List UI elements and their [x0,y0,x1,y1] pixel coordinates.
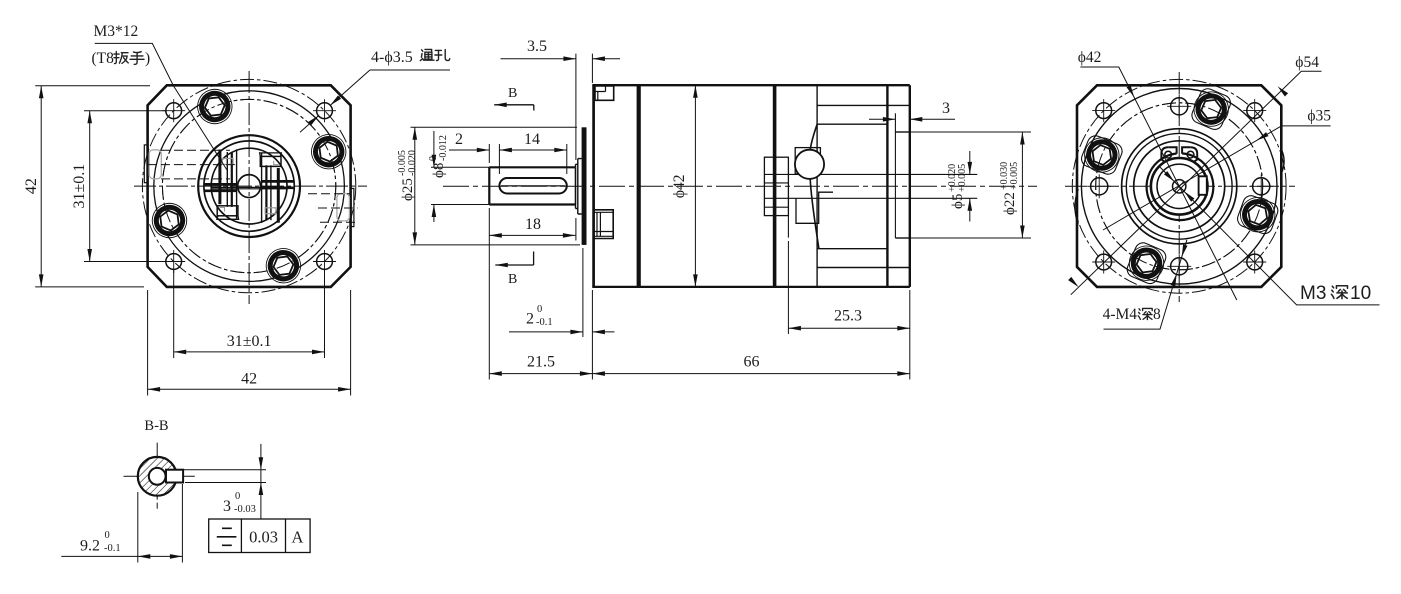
shaft step A [576,164,578,208]
bolt circle dashes over screws [1096,103,1263,270]
body bottom edge [592,286,910,288]
svg-text:2: 2 [526,311,534,328]
dim phi42: dimension line [694,85,696,287]
left hidden lines [161,149,230,151]
pilot boss circles [198,135,300,237]
dim 21.5 extension line [488,208,490,380]
center shaft hole [238,175,261,198]
label M3*12 leader [95,43,227,170]
M4 hole top [1167,94,1191,118]
svg-text:ϕ25: ϕ25 [400,178,416,201]
corner hole bottom-left [1092,251,1115,274]
dim 3.5: dimension line [501,58,576,60]
M3 tapped center hole [1173,180,1186,193]
right edge slot tab [351,189,354,227]
flange square outline [1077,85,1281,287]
leader line phi42 [1080,67,1236,300]
keyway bottom edge line [501,185,565,187]
svg-text:25.3: 25.3 [834,308,862,325]
horizontal centerline [134,185,367,187]
right edge slot phantom [337,194,350,221]
right hidden lines [308,193,350,195]
screw pocket top [1189,86,1233,132]
motor shell line [816,85,818,287]
corner hole top-left [1092,99,1115,122]
dim 3 key: leader line to frame [260,444,262,519]
flange screw top detail [595,86,614,100]
dim 2-0.1: extension lines [582,248,584,337]
bore circle [211,148,287,224]
motor end-bell joint [886,85,888,287]
dim 3 rear: dimension line [869,118,895,120]
block edge extension [787,216,789,238]
svg-text:ϕ22: ϕ22 [1002,192,1018,215]
hex socket screw bottom [261,243,306,288]
dim 21.5: dimension line [489,373,592,375]
M4 hole right [1249,174,1273,198]
svg-text:0.03: 0.03 [249,528,278,547]
dim 31 bottom: extension lines [173,270,175,358]
corner-hole circle [1072,79,1286,293]
svg-text:2: 2 [455,131,463,148]
shaft end face [488,167,490,204]
center hole [149,468,166,485]
key [166,470,183,483]
shaft circle [1157,164,1201,208]
M4 hole left [1087,174,1111,198]
hex socket screw left [147,198,192,243]
corner hole top-right [1243,99,1266,122]
svg-text:4-ϕ3.5: 4-ϕ3.5 [371,49,413,66]
carrier mechanism rotated half [260,153,294,223]
hex socket screw left [1079,133,1124,178]
corner-hole circle [142,79,355,292]
stepped bracket below [796,192,833,223]
body top edge [592,84,910,86]
dim 66: dimension line [592,373,909,375]
screw pocket bottom [1125,240,1169,286]
svg-text:10: 10 [1350,283,1371,304]
dim 2-0.1: dimension line [509,331,583,333]
dim 25.3: extension line [787,241,789,334]
carrier mechanism upper-left half [205,149,239,219]
motor lead wire curve [810,124,819,249]
svg-text:B-B: B-B [144,418,168,434]
dim 18: dimension line [489,234,575,236]
svg-text:66: 66 [744,354,760,371]
hex socket screw right [1236,193,1280,237]
dim 25.3: dimension line [788,327,909,329]
capacitor bracket [795,148,820,174]
main body circle [154,91,345,282]
svg-text:18: 18 [525,216,541,233]
dim 42 bottom: dimension line [148,388,351,390]
motor front joint line [773,85,777,287]
vertical centerline [1178,72,1180,302]
svg-text:A: A [292,528,304,547]
screw pocket left [1079,133,1124,176]
gearbox boss circles [1122,129,1237,244]
svg-text:8: 8 [1153,306,1161,323]
leader line phi54 diagonal [1071,71,1322,294]
hex socket screw bottom [1124,241,1169,286]
section centerlines [124,475,195,477]
svg-text:-0.03: -0.03 [234,504,256,515]
ring gear joint line [637,85,641,287]
dim phi5: text [947,164,968,209]
dim 3 key: extension lines [171,469,266,471]
svg-text:0: 0 [235,491,240,502]
output shaft outline [489,167,575,204]
feature control frame [209,519,310,553]
bolt circle PCD35 [162,99,335,272]
corner hole bottom-left [162,250,185,273]
svg-text:31±0.1: 31±0.1 [227,333,272,350]
dim 2 keyway: extension lines [488,144,490,163]
dim 42 left: extension lines [35,85,150,87]
pilot flange disc [582,127,587,245]
main centerline [443,185,1037,187]
svg-text:9.2: 9.2 [80,538,100,555]
dim phi25: dimension line [414,127,416,245]
svg-text:ϕ5: ϕ5 [950,194,966,209]
dim phi22: dimension line [1021,132,1023,238]
svg-text:ϕ8: ϕ8 [431,163,447,178]
motor rear face [909,85,911,287]
svg-text:42: 42 [241,371,257,388]
svg-text:-0.012: -0.012 [438,135,449,161]
dim 66: extension line [909,290,911,380]
leader line M3 depth10 [1159,166,1380,305]
motor bottom chamfer lines [817,248,887,250]
left edge slot tab [144,145,147,183]
dim phi25: text [397,150,418,201]
corner hole top-right [313,99,336,122]
shaft step B [578,159,582,214]
dim phi8: dimension line with outside arrows [433,131,435,167]
dim 31 left: dimension line [89,111,91,262]
motor top chamfer lines [817,104,910,106]
dim phi5: dimension line [969,151,971,174]
carrier cross lines [211,186,288,188]
terminal block [764,157,788,215]
svg-text:+0.005: +0.005 [957,164,968,192]
dim 9.2: dimension line [61,555,182,557]
svg-text:14: 14 [524,131,540,148]
rear boss edge line [894,113,896,238]
circlip notch [1199,176,1207,195]
dim phi22: text [999,162,1020,215]
dim 42 left: dimension line [40,86,42,287]
svg-text:-0.020: -0.020 [407,150,418,176]
hex socket screw top [192,84,237,129]
bearing bore thick circle [1151,158,1208,215]
horizontal centerline [1065,185,1295,187]
svg-text:31±0.1: 31±0.1 [71,164,88,209]
dim phi8: extension lines [431,166,489,168]
dim 31 bottom: dimension line [174,351,325,353]
svg-text:3: 3 [942,100,950,117]
label 4-phi3.5 leader [370,69,450,71]
svg-text:-0.1: -0.1 [536,317,553,328]
dim phi8: text [428,135,449,178]
retaining ring circlip [1147,147,1214,220]
svg-text:21.5: 21.5 [527,354,555,371]
dim phi22: extension lines [896,131,1031,133]
motor body circle [1081,89,1277,285]
svg-text:-0.1: -0.1 [104,543,121,554]
dim 14: dimension line [499,149,566,151]
dim 3.5: extension lines [575,54,577,160]
svg-text:0: 0 [105,530,110,541]
gearbox front face [592,85,595,287]
svg-text:ϕ42: ϕ42 [1078,49,1102,66]
svg-text:4-M4: 4-M4 [1103,306,1138,323]
wire grommet circle [795,150,824,179]
dim 31 left: extension lines [84,110,167,112]
svg-text:0: 0 [537,304,542,315]
svg-text:M3*12: M3*12 [94,23,139,40]
svg-text:ϕ35: ϕ35 [1307,108,1331,125]
svg-text:42: 42 [23,178,40,194]
dim phi25: extension lines [411,126,578,128]
hatched shaft section [138,457,177,496]
screw pocket right [1235,194,1280,236]
dim 9.2: extension lines [137,492,139,563]
bolt circle dashes over screws [162,99,335,272]
corner hole top-left [162,99,185,122]
svg-text:B: B [508,86,517,101]
corner hole bottom-right [313,250,336,273]
symmetry symbol [217,528,237,545]
corner hole bottom-right [1243,251,1266,274]
bolt circle PCD35 [1096,103,1263,270]
flange screw lower detail [593,210,613,239]
right edge bulge [1281,149,1284,173]
svg-text:3: 3 [223,498,231,515]
thread cross mark [1175,182,1184,191]
svg-text:ϕ42: ϕ42 [671,174,688,198]
svg-text:B: B [508,272,517,287]
dim 2: dimension line [449,149,489,151]
svg-text:3.5: 3.5 [527,38,547,55]
rear boss top edge [895,131,909,133]
hex socket screw right [306,129,351,174]
keyway slot [499,178,566,194]
vertical centerline [248,71,250,304]
svg-text:+0.005: +0.005 [1009,162,1020,190]
svg-text:M3: M3 [1300,283,1326,304]
svg-text:): ) [145,50,150,67]
left edge bulge [1075,189,1078,224]
hex socket screw top [1189,87,1234,132]
leader line 4-M4 depth8 [1104,240,1187,329]
rear boss bottom edge [895,237,909,239]
dim 42 bottom: extension lines [147,290,149,396]
svg-text:(T8: (T8 [92,50,115,67]
left edge slot phantom [149,150,161,179]
leader line phi35 [1103,126,1331,230]
lead wire lines [764,173,977,175]
shaft shoulder [575,167,577,204]
M4 hole bottom [1167,254,1191,278]
flange square outline [148,85,351,287]
svg-text:ϕ54: ϕ54 [1295,54,1319,71]
